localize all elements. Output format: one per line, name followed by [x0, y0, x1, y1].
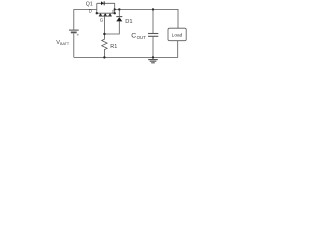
svg-text:D1: D1: [125, 19, 132, 25]
svg-text:G: G: [100, 17, 104, 22]
svg-text:Load: Load: [172, 32, 183, 38]
svg-text:Q1: Q1: [86, 1, 93, 7]
svg-text:R1: R1: [110, 44, 117, 50]
svg-text:+: +: [77, 33, 80, 38]
svg-text:OUT: OUT: [137, 35, 147, 40]
svg-text:S: S: [112, 9, 115, 14]
svg-text:BATT: BATT: [60, 42, 70, 46]
svg-text:C: C: [131, 33, 136, 40]
svg-text:D: D: [89, 9, 92, 14]
